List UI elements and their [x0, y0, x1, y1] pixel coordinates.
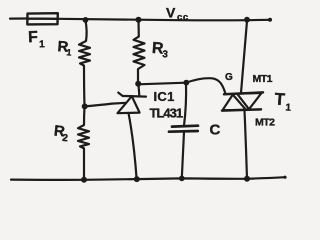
node: top rail / R3	[136, 17, 142, 23]
svg-text:V: V	[166, 5, 176, 21]
wire gate	[186, 78, 225, 93]
wire top rail	[10, 19, 270, 21]
label R3	[151, 40, 169, 61]
svg-text:MT2: MT2	[255, 117, 275, 129]
op-amp U1 : TL431 shunt regulator IC1	[118, 85, 147, 180]
node: top rail / triac	[244, 17, 250, 23]
svg-text:C: C	[210, 122, 221, 139]
svg-text:T: T	[274, 90, 286, 110]
transistor Q1 : triac T1	[222, 21, 263, 179]
wire bottom rail	[11, 177, 285, 180]
resistor R3	[134, 20, 145, 84]
label F1	[28, 29, 46, 51]
fuse F1	[27, 13, 58, 24]
svg-text:cc: cc	[177, 12, 189, 23]
node: R1/R2/ref	[82, 103, 88, 109]
wire IC1 cathode to C and gate	[138, 83, 186, 85]
resistor R1	[79, 20, 90, 106]
svg-text:IC1: IC1	[154, 89, 175, 104]
node: wire/C	[183, 80, 189, 86]
svg-text:F: F	[28, 29, 39, 46]
node: bottom rail / triac	[244, 176, 250, 182]
node: R3/IC1/wire	[135, 81, 141, 87]
svg-text:2: 2	[62, 133, 69, 145]
capacitor C	[169, 83, 198, 178]
node: bottom rail right end	[283, 176, 286, 179]
node: bottom rail / IC1 anode	[134, 176, 140, 182]
svg-text:MT1: MT1	[253, 73, 273, 85]
svg-text:1: 1	[66, 47, 72, 57]
node: top rail right end	[268, 18, 272, 22]
svg-text:3: 3	[162, 49, 169, 60]
label T1	[274, 90, 293, 114]
svg-text:1: 1	[39, 39, 45, 50]
wire ref (R1/R2 node to IC1)	[85, 103, 127, 107]
svg-text:TL431: TL431	[150, 106, 183, 121]
svg-text:1: 1	[285, 102, 292, 113]
label R2	[53, 122, 70, 144]
node: bottom rail / C	[179, 176, 185, 182]
node: top rail / R1	[83, 17, 89, 23]
node: bottom rail / R2	[81, 177, 87, 183]
resistor R2	[78, 106, 89, 179]
label R1	[57, 38, 73, 57]
label Vcc	[166, 5, 189, 24]
svg-text:G: G	[225, 72, 233, 83]
